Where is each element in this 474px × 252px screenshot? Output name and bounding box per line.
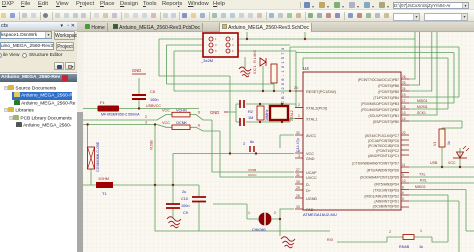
svg-text:2: 2 [145, 115, 147, 119]
wire drop to UCAP pin [212, 120, 294, 172]
wire RN3A output [190, 115, 212, 121]
svg-text:(AIN2/PCINT11)PC1: (AIN2/PCINT11)PC1 [368, 154, 399, 158]
wire ICSP pin3 loop left [167, 45, 204, 84]
U4 left pin names [306, 90, 337, 212]
pin numbers 1-6 ICSP [215, 37, 234, 53]
junction LED D2 on RESET row [262, 90, 264, 92]
svg-text:RESET(PC1/DW): RESET(PC1/DW) [306, 90, 337, 94]
wire nest left vertical x296 [295, 51, 297, 108]
svg-text:(SCLK/PCINT1)PB1: (SCLK/PCINT1)PB1 [368, 114, 399, 118]
svg-text:17: 17 [402, 99, 406, 103]
resistor R2 [257, 106, 264, 120]
svg-text:29: 29 [296, 186, 300, 190]
svg-text:GND: GND [306, 157, 315, 161]
svg-text:25: 25 [402, 81, 406, 85]
svg-text:(PCINT9/OC1B)PC5: (PCINT9/OC1B)PC5 [368, 144, 399, 148]
svg-text:OCNK: OCNK [176, 121, 187, 125]
ground near ICSP [239, 67, 251, 77]
wire from top edge at x247 [246, 32, 248, 39]
svg-text:VCC: VCC [306, 152, 314, 156]
wire LED D2 drop [262, 66, 264, 91]
wire ICSP pin5 loop left [174, 51, 203, 91]
wire nest left vertical x303 [302, 58, 304, 70]
capacitor C4 crystal top [240, 100, 244, 108]
svg-text:VCHN: VCHN [176, 109, 187, 113]
svg-text:10: 10 [402, 179, 406, 183]
svg-text:3: 3 [243, 142, 245, 146]
svg-text:9: 9 [402, 173, 404, 177]
svg-text:2: 2 [274, 211, 276, 215]
svg-text:2u: 2u [182, 190, 186, 194]
wire ferrite L1 row [83, 184, 199, 186]
varistor Z2 [259, 213, 272, 226]
svg-text:(RTS/AIN5/INT6)PD6: (RTS/AIN5/INT6)PD6 [367, 169, 399, 173]
LED D2 [260, 58, 266, 66]
svg-text:(T1/PCINT4)PB4: (T1/PCINT4)PB4 [373, 96, 399, 100]
capacitor C8 [132, 95, 146, 99]
U4 right pin numbers [402, 75, 406, 201]
wire AVCC pin link [280, 135, 294, 148]
junction C8 on USBVCC [138, 107, 140, 109]
capacitor C10 [166, 204, 180, 208]
U4 right pin names [352, 78, 399, 209]
wire nest left vertical x290 [289, 47, 291, 91]
svg-text:C9: C9 [183, 211, 188, 215]
junction crystal top left [259, 103, 261, 105]
svg-text:ATMEGA16U2-MU: ATMEGA16U2-MU [303, 212, 337, 217]
svg-text:USBVCC: USBVCC [146, 104, 161, 108]
wire top drop to PB5 [409, 32, 432, 91]
svg-text:2: 2 [389, 230, 391, 234]
svg-text:R2: R2 [248, 110, 253, 114]
svg-text:8: 8 [402, 186, 404, 190]
resistor RN3A [172, 112, 190, 117]
wire C8 branch [138, 78, 140, 109]
svg-text:UCAP: UCAP [306, 171, 317, 175]
svg-text:19: 19 [402, 93, 406, 97]
wire Z2 feed horizontal [213, 203, 247, 205]
wire varistor Z1 branch [88, 125, 91, 186]
svg-text:(PCINT7/OC0A/OC1C)PB7: (PCINT7/OC0A/OC1C)PB7 [358, 78, 399, 82]
svg-text:CG0603MLC-05E: CG0603MLC-05E [96, 141, 100, 172]
wire net VCC row to VCC pin [173, 153, 294, 155]
wire PB0 to resistor V1 [409, 121, 462, 167]
svg-text:(TXD1/INT3)PD3: (TXD1/INT3)PD3 [373, 189, 399, 193]
svg-text:30: 30 [296, 180, 300, 184]
junction Z2 to PAD [279, 218, 281, 220]
svg-text:(PCINT6)PB6: (PCINT6)PB6 [378, 84, 399, 88]
fuse F1 [98, 106, 120, 112]
wire loop row y76 to AVCC column [159, 76, 230, 154]
svg-text:3: 3 [145, 121, 147, 125]
junction ICSP nest x247 [246, 38, 248, 40]
junction VUSB on L1 row [154, 184, 156, 186]
svg-text:(CTS/HWB/AIN6/TO/INT7)PD7: (CTS/HWB/AIN6/TO/INT7)PD7 [352, 162, 399, 166]
svg-text:(INT5/AIN3)PD4: (INT5/AIN3)PD4 [374, 183, 399, 187]
svg-text:11: 11 [402, 163, 406, 167]
wire net RXL row [409, 182, 474, 184]
wire net TXL row [409, 176, 474, 178]
resistor RN3B [172, 125, 190, 130]
svg-text:XTAL1: XTAL1 [306, 118, 317, 122]
junction R3 on RESET row [273, 90, 275, 92]
path combo [393, 2, 469, 9]
svg-text:16MHz: 16MHz [265, 109, 269, 121]
svg-text:RN4B: RN4B [399, 245, 410, 249]
tab bar [77, 22, 474, 32]
svg-text:27: 27 [296, 168, 300, 172]
wire ICSP ground stub [244, 57, 246, 68]
svg-text:UVCC: UVCC [248, 173, 257, 177]
svg-text:1OHM: 1OHM [98, 177, 109, 181]
svg-text:18: 18 [402, 105, 406, 109]
svg-text:F1: F1 [100, 100, 105, 105]
left Projects panel [0, 22, 77, 252]
svg-text:_3x2M: _3x2M [200, 58, 213, 63]
crystal Y2 [270, 106, 288, 120]
svg-text:(OC1A/PCINT8)PC6: (OC1A/PCINT8)PC6 [368, 139, 399, 143]
svg-text:VUSB: VUSB [248, 168, 256, 172]
junction C14 on VCC row [255, 152, 257, 154]
svg-text:31: 31 [296, 173, 300, 177]
wire jog to XTAL2 pin [296, 104, 303, 108]
svg-text:(SS/PCINT0)PB0: (SS/PCINT0)PB0 [373, 120, 399, 124]
wire USB D- into RN3A [83, 115, 172, 121]
svg-text:(PCINT5)PB5: (PCINT5)PB5 [378, 90, 399, 94]
svg-text:C14 47p: C14 47p [296, 138, 300, 152]
wire top drop to PB6 [409, 32, 420, 85]
wire net MISO2 row [409, 190, 474, 232]
wire drop to UVCC pin [220, 131, 294, 177]
wire varistor Z2 row to PAD pin [247, 209, 294, 236]
svg-text:1: 1 [298, 114, 300, 118]
svg-text:VUSB: VUSB [150, 140, 154, 150]
svg-text:24: 24 [294, 86, 298, 90]
svg-text:RXI: RXI [327, 238, 333, 242]
svg-text:USB: USB [430, 161, 438, 165]
svg-text:VCC: VCC [162, 109, 170, 113]
svg-text:3: 3 [298, 154, 300, 158]
svg-text:MF-MSMF050-2 500mA: MF-MSMF050-2 500mA [101, 113, 140, 117]
junction C10 top [172, 184, 174, 186]
svg-text:VCC: VCC [448, 161, 456, 165]
wire nest outer to PB4 [290, 47, 459, 97]
svg-text:GND: GND [132, 68, 141, 73]
wire from top edge at x305 [304, 32, 306, 39]
U4 left pin stubs [295, 91, 303, 209]
junction on VCC row x230 [229, 152, 231, 154]
capacitor C14 [250, 146, 254, 152]
svg-text:SCK1: SCK1 [417, 111, 426, 115]
resistor V1 [439, 129, 445, 147]
wire ICSP pin6 right [238, 50, 296, 52]
svg-text:1: 1 [248, 211, 250, 215]
svg-text:100n: 100n [181, 204, 189, 208]
U4 right pin stubs [401, 79, 409, 207]
resistor RN4B [403, 235, 414, 240]
svg-text:1: 1 [420, 229, 422, 233]
svg-text:(PD0/MISO/PCINT3)PB3: (PD0/MISO/PCINT3)PB3 [361, 102, 399, 106]
svg-text:XTAL2: XTAL2 [290, 110, 294, 121]
junction crystal bottom left [259, 121, 261, 123]
wire RN3B output [190, 127, 220, 131]
wire C9 branch [198, 185, 200, 231]
IC U4 ATMEGA16U2 body [303, 72, 401, 210]
menu bar [0, 0, 474, 10]
svg-text:V1: V1 [433, 142, 437, 146]
ground under C10 [167, 217, 181, 228]
svg-text:(OC0B/INT0)PD0: (OC0B/INT0)PD0 [373, 205, 399, 209]
wire Z2 feed vertical [246, 204, 248, 219]
svg-text:(PD1/MOSI/PCINT2)PB2: (PD1/MOSI/PCINT2)PB2 [361, 108, 399, 112]
svg-text:13: 13 [402, 111, 406, 115]
capacitor C9 [192, 197, 206, 202]
connector J5 ICSP 3x2M [203, 33, 238, 57]
svg-text:14: 14 [402, 117, 406, 121]
svg-text:33: 33 [296, 205, 300, 209]
LED D3 [457, 152, 464, 158]
svg-text:MISO2: MISO2 [415, 185, 426, 189]
svg-text:XTAL2(PC0): XTAL2(PC0) [306, 107, 328, 111]
wire net USB row [409, 166, 474, 168]
wire crystal GND port link [228, 104, 236, 122]
wire nest inner to PB2 [303, 58, 448, 109]
toolbar [0, 10, 474, 22]
wire net VUSB vertical [154, 125, 156, 186]
capacitor C5 crystal bottom [240, 118, 244, 126]
svg-text:(AIN0/INT1)PD1: (AIN0/INT1)PD1 [374, 200, 399, 204]
svg-text:22: 22 [402, 131, 406, 135]
junction crystal top right [281, 103, 283, 105]
svg-text:(XCK/AIN4/PCINT12)PD5: (XCK/AIN4/PCINT12)PD5 [360, 176, 399, 180]
svg-text:CHK060: CHK060 [252, 228, 266, 232]
wire nest middle to PB3 [296, 53, 454, 104]
junction crystal bottom right [281, 121, 283, 123]
varistor Z1 [88, 147, 95, 169]
svg-text:C8: C8 [150, 90, 155, 94]
svg-text:PAD: PAD [306, 208, 314, 212]
wire ground rail bottom [155, 185, 330, 231]
resistor R3 [271, 64, 277, 83]
wire ICSP pin1 loop left [159, 39, 203, 76]
svg-text:T1: T1 [102, 191, 107, 196]
wire ICSP pin2 to top nest [238, 38, 415, 40]
ground near PAD [281, 237, 295, 248]
junction V1 on USB row [441, 166, 443, 168]
junction Z1 on D+ [86, 123, 88, 125]
wire top drop to PB7 [409, 32, 415, 79]
svg-text:GND: GND [210, 110, 219, 115]
wire ICSP pin4 right [238, 44, 290, 46]
svg-text:TXL: TXL [419, 173, 426, 177]
wire RN4B row [337, 237, 448, 242]
svg-text:100n: 100n [150, 98, 158, 102]
svg-text:26: 26 [402, 75, 406, 79]
svg-text:C10: C10 [181, 197, 188, 201]
junction VUSB top [154, 123, 156, 125]
svg-text:UGND: UGND [306, 197, 317, 201]
svg-text:6: 6 [198, 111, 200, 115]
svg-text:6: 6 [198, 123, 200, 127]
wire PD2 row bottom exit [409, 201, 459, 252]
svg-text:RXL: RXL [420, 179, 427, 183]
svg-text:UVCC: UVCC [306, 176, 317, 180]
wire net USBVCC horizontal [83, 108, 199, 110]
wire loop row y84 [167, 84, 275, 91]
combos on second toolbar row right [393, 13, 420, 21]
wire C10 branch [172, 154, 174, 218]
svg-text:AVCC: AVCC [306, 134, 317, 138]
junction nest x305 [304, 38, 306, 40]
svg-text:(INT4/ICP1/CLK0)PC7: (INT4/ICP1/CLK0)PC7 [365, 134, 399, 138]
svg-text:28: 28 [296, 194, 300, 198]
U4 left pin numbers [294, 86, 300, 209]
wire RESET row [174, 90, 297, 92]
svg-text:6: 6 [402, 191, 404, 195]
menu-row right icons [300, 1, 394, 9]
svg-text:U4: U4 [303, 66, 309, 71]
wire crystal top and bottom rows [236, 104, 303, 122]
svg-text:1M: 1M [248, 116, 253, 120]
svg-text:(PCINT10)PC2: (PCINT10)PC2 [376, 149, 399, 153]
svg-text:1k: 1k [447, 141, 451, 145]
wire LED D3 drop [459, 148, 461, 167]
svg-text:(RXD1/AIN1/INT2)PD2: (RXD1/AIN1/INT2)PD2 [364, 195, 399, 199]
junction LED D3 on USB row [459, 166, 461, 168]
tree [0, 74, 77, 82]
svg-text:5: 5 [402, 197, 404, 201]
svg-text:2: 2 [298, 103, 300, 107]
svg-text:MISO1: MISO1 [417, 99, 428, 103]
wire top drop to PB1 [409, 32, 437, 115]
svg-text:1k: 1k [419, 245, 423, 249]
svg-text:MOSI1: MOSI1 [417, 105, 428, 109]
svg-text:VCC: VCC [162, 121, 170, 125]
inductor L1 [96, 182, 113, 188]
svg-text:32: 32 [296, 131, 300, 135]
svg-text:XD1 RLMC: XD1 RLMC [253, 50, 257, 74]
wire PD3 row to RN4B [409, 195, 448, 242]
svg-text:8u: 8u [250, 140, 254, 144]
wire USB D+ into RN3B [83, 125, 172, 128]
svg-text:24: 24 [402, 87, 406, 91]
junction nest on RESET row [289, 90, 291, 92]
svg-text:D+: D+ [306, 189, 312, 193]
